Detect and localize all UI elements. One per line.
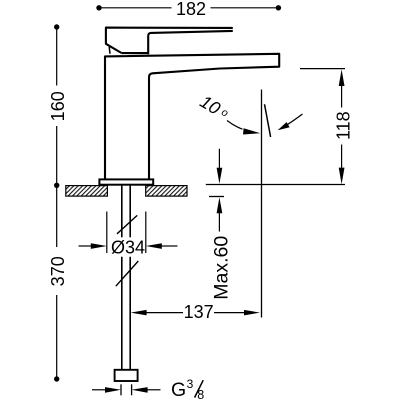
svg-text:370: 370 (48, 256, 68, 286)
supply pipe lower segment (122, 257, 130, 370)
svg-text:118: 118 (334, 111, 354, 140)
base flange (99, 179, 153, 184)
svg-text:160: 160 (48, 91, 68, 121)
dim 182 line (99, 7, 278, 9)
lever wedge tick (108, 47, 111, 54)
dim 160 top dot (54, 24, 59, 29)
supply pipe upper segment (122, 185, 130, 238)
dim 118 top arrowhead (339, 69, 345, 86)
angle right arrowhead (278, 122, 290, 130)
water stream angled line (265, 104, 271, 137)
dim 137 right arrowhead (244, 310, 260, 316)
angle left arrowhead (243, 128, 260, 134)
water stream vertical line (261, 90, 263, 318)
svg-text:137: 137 (184, 302, 214, 322)
pipe break mark lower (116, 261, 139, 286)
deck extension line (206, 184, 345, 186)
max60 lower arrowhead (217, 197, 223, 213)
svg-text:3: 3 (187, 377, 194, 391)
spout outlet extension line (300, 68, 345, 70)
svg-text:Ø34: Ø34 (111, 238, 145, 258)
max60 upper arrowhead (217, 168, 223, 184)
G3/8 right tick (131, 384, 133, 395)
lever handle bottom edge (122, 52, 149, 54)
dim 160/370 vertical line (56, 27, 58, 379)
svg-text:G: G (171, 379, 186, 400)
G3/8 right arrow (147, 389, 161, 391)
lever handle blade underside and front vertical (148, 31, 233, 54)
pipe break mark upper (117, 215, 137, 233)
countertop right hatched block (146, 186, 187, 197)
dim 137 line left segment (145, 312, 183, 314)
faucet body and spout outline (105, 54, 279, 180)
connector nut (115, 370, 138, 381)
G3/8 left tick (120, 384, 122, 395)
countertop left hatched block (66, 186, 108, 197)
max60 lower reference tick (209, 196, 224, 198)
dim Ø34 right extension line (145, 212, 147, 254)
G3/8 left arrow (92, 389, 106, 391)
dim 137 line right segment (214, 312, 246, 314)
dim 182 right dot (276, 5, 281, 10)
lever handle top edge and left wedge (106, 28, 233, 53)
dim 118 bottom arrowhead (339, 168, 345, 185)
angle left leader arc (227, 121, 243, 130)
svg-text:8: 8 (197, 388, 204, 400)
dim Ø34 left extension line (106, 212, 108, 254)
dim 137 left arrowhead (131, 310, 147, 316)
max60 upper arrow stem (218, 149, 220, 170)
dim Ø34 left arrow (79, 245, 92, 247)
svg-text:Max.60: Max.60 (210, 236, 232, 300)
dim Ø34 right arrow (162, 245, 178, 247)
svg-text:10o: 10o (197, 91, 233, 123)
dim 118 line with arrows (341, 84, 343, 168)
svg-text:182: 182 (176, 0, 206, 19)
max60 lower arrow stem (218, 212, 220, 232)
dim 182 left dot (96, 5, 101, 10)
angle right leader arc (286, 114, 302, 125)
dim 370 bottom dot (54, 376, 59, 381)
dim middle dot at deck (54, 183, 59, 188)
